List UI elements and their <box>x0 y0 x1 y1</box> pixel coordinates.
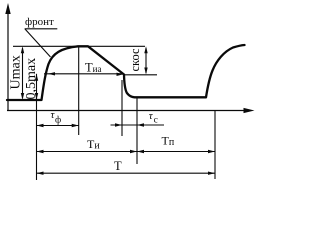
T dimension <box>37 172 216 174</box>
Umax dimension line <box>22 48 24 98</box>
tc dimension <box>111 124 165 126</box>
tf dimension <box>37 125 79 127</box>
wire: extension line tf right <box>78 46 80 135</box>
node skos lower tick <box>124 74 157 76</box>
wire: waveform <box>7 45 245 100</box>
Tp dimension <box>137 151 215 153</box>
vertical axis <box>7 13 9 111</box>
Umax level line <box>13 45 145 47</box>
node 0.5-level line (Tia) <box>44 73 124 75</box>
horizontal axis arrowhead <box>244 108 255 113</box>
svg-text:с: с <box>154 116 158 126</box>
horizontal axis <box>7 110 244 112</box>
skos double arrow <box>145 48 147 73</box>
svg-text:Umax: Umax <box>9 55 24 89</box>
svg-text:скос: скос <box>128 48 142 72</box>
wire: front underline <box>25 28 58 30</box>
svg-text:ф: ф <box>55 115 61 126</box>
wire: extension line tc right <box>136 98 138 164</box>
wire: extension line period right <box>214 111 216 180</box>
wire: front leader <box>25 29 51 57</box>
wire: extension line tc left <box>121 80 123 136</box>
Ti dimension <box>37 151 138 153</box>
svg-text:фронт: фронт <box>25 16 54 28</box>
0,5max dimension / extension line <box>36 74 38 180</box>
svg-text:Т: Т <box>114 159 122 173</box>
vertical axis arrowhead <box>5 3 10 14</box>
svg-text:0,5max: 0,5max <box>24 58 39 100</box>
